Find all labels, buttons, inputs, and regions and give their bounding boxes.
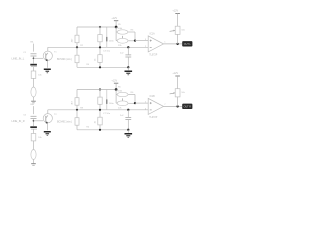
- wire: [177, 14, 179, 27]
- ground: [31, 100, 36, 102]
- wire: [177, 97, 179, 107]
- resistor R11: [98, 117, 102, 125]
- ground: [44, 131, 51, 133]
- svg-text:INR: INR: [30, 104, 34, 106]
- wire: [99, 42, 101, 48]
- capacitor C6 polarized: [30, 126, 37, 128]
- svg-text:100n: 100n: [109, 41, 115, 43]
- node base junction L: [33, 57, 35, 59]
- node L b: [99, 46, 101, 48]
- wire emitter R: [47, 123, 49, 131]
- capacitor C2 polarized: [30, 64, 37, 66]
- node -in L: [127, 46, 129, 48]
- capacitor C9 R: [127, 110, 129, 117]
- svg-text:+12V: +12V: [111, 80, 117, 83]
- potentiometer P2: [175, 26, 180, 34]
- wire: [76, 90, 78, 98]
- node output L: [176, 43, 178, 45]
- resistor R8: [31, 150, 36, 160]
- node base junction R: [33, 120, 35, 122]
- wire: [177, 34, 179, 44]
- wire: [76, 63, 78, 68]
- resistor R2: [31, 87, 36, 97]
- wire V+ rail L: [77, 26, 116, 28]
- diode D1: [106, 27, 108, 47]
- svg-text:LINE_IN_L: LINE_IN_L: [12, 56, 25, 60]
- node +in R: [134, 102, 136, 104]
- ground: [44, 69, 51, 71]
- connector J2 OUT R: [182, 104, 192, 109]
- node V+ L: [115, 26, 118, 29]
- node R c: [99, 129, 101, 131]
- wire rail L: [48, 46, 148, 48]
- wire: [99, 104, 101, 110]
- resistor R5: [98, 55, 102, 63]
- svg-text:+12V: +12V: [111, 17, 117, 20]
- node V+ L a: [99, 26, 101, 28]
- capacitor C4b L: [127, 47, 129, 54]
- svg-text:TL072P: TL072P: [149, 117, 158, 119]
- node gnd R: [127, 129, 129, 131]
- svg-text:LINE_IN_R: LINE_IN_R: [12, 119, 25, 123]
- transistor Q2: [43, 114, 52, 123]
- connector J1 OUT L: [182, 41, 192, 46]
- svg-text:C3 10u: C3 10u: [103, 51, 111, 53]
- wire: [76, 43, 78, 48]
- svg-text:OUT R: OUT R: [184, 106, 192, 109]
- wire collector L: [47, 47, 49, 51]
- ground: [31, 163, 36, 165]
- wire: [134, 95, 136, 104]
- svg-text:+12V: +12V: [172, 10, 178, 13]
- node output R: [176, 105, 178, 107]
- op-amp IC1B: [148, 98, 163, 114]
- wire: [33, 78, 35, 87]
- resistor R9: [75, 98, 79, 106]
- node V+ R a: [99, 88, 101, 90]
- wire: [76, 27, 78, 35]
- potentiometer P4: [175, 89, 180, 97]
- potentiometer P3: [122, 98, 124, 100]
- wire collector R: [47, 110, 49, 114]
- node +in L: [134, 39, 136, 41]
- node R b: [99, 109, 101, 111]
- svg-text:100n: 100n: [109, 103, 115, 105]
- wire emitter L: [47, 60, 49, 68]
- wire base L: [34, 57, 44, 59]
- wire rail R: [48, 109, 148, 111]
- wire: [134, 32, 136, 41]
- ground: [127, 130, 129, 133]
- resistor R1: [31, 71, 36, 78]
- node -in R: [127, 109, 129, 111]
- svg-text:OUT L: OUT L: [184, 43, 192, 46]
- resistor R8b: [98, 97, 102, 104]
- wire: [99, 125, 101, 130]
- svg-text:C7 10u: C7 10u: [103, 113, 111, 115]
- wire: [99, 27, 101, 35]
- node V+ R: [115, 88, 118, 91]
- svg-text:IC1A: IC1A: [150, 33, 156, 36]
- transistor Q1: [43, 51, 52, 60]
- ground: [127, 67, 129, 70]
- node collector R: [76, 109, 78, 111]
- wire: [76, 105, 78, 110]
- svg-text:BC549C (sim.): BC549C (sim.): [57, 59, 72, 61]
- wire: [76, 125, 78, 130]
- wire: [115, 27, 117, 41]
- wire output R: [164, 105, 183, 107]
- resistor R10: [76, 110, 78, 118]
- wire: [33, 141, 35, 150]
- resistor R4: [76, 47, 78, 55]
- svg-text:BC549C (sim.): BC549C (sim.): [57, 121, 72, 123]
- node collector L: [76, 46, 78, 48]
- svg-text:TL072P: TL072P: [149, 55, 158, 57]
- wire: [99, 62, 101, 67]
- svg-text:IC1B: IC1B: [150, 96, 156, 98]
- resistor R2b: [98, 35, 102, 42]
- node gnd L: [127, 66, 129, 68]
- wire +in L: [135, 40, 148, 42]
- wire: [177, 76, 179, 89]
- wire base R: [34, 120, 44, 122]
- wire: [99, 90, 101, 98]
- op-amp IC1A: [148, 36, 163, 52]
- wire: [33, 160, 35, 164]
- wire +in R: [135, 102, 148, 104]
- wire: [33, 97, 35, 101]
- resistor R7: [31, 134, 36, 141]
- resistor R3: [75, 35, 79, 43]
- wire V+ rail R: [77, 89, 116, 91]
- svg-text:+12V: +12V: [172, 72, 178, 75]
- wire: [115, 90, 117, 104]
- diode D2: [106, 90, 108, 110]
- node L c: [99, 66, 101, 68]
- wire output L: [164, 43, 183, 45]
- potentiometer P1: [122, 36, 124, 38]
